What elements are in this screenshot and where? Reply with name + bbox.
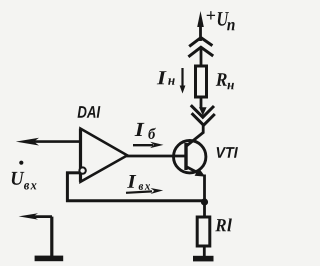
label R1 <box>215 218 232 231</box>
power +Up arrowhead <box>197 11 204 27</box>
arrow Ib direction <box>133 144 153 146</box>
wire: emitter down to junction <box>203 175 206 203</box>
label VT1 <box>217 147 238 158</box>
wire break chevron lower 2 <box>192 113 215 125</box>
wire: junction to R1 <box>203 202 206 218</box>
ground right <box>193 256 214 262</box>
wire: feedback bottom run <box>66 199 205 202</box>
label DA1 <box>78 106 101 118</box>
input arrowhead left <box>16 138 39 146</box>
wire arrowhead down <box>199 107 207 115</box>
wire: op-amp output to base <box>127 155 187 158</box>
wire: non-inverting input <box>34 140 81 143</box>
wire: break to collector <box>202 125 205 134</box>
label RH <box>216 73 234 89</box>
transistor VT1 collector lead <box>186 133 203 147</box>
resistor RH <box>196 66 207 97</box>
op-amp inverting input bubble <box>79 167 85 173</box>
transistor VT1 body <box>174 141 206 173</box>
resistor R1 <box>197 217 210 246</box>
arrow IH direction <box>181 68 183 87</box>
node +Up label <box>207 11 235 30</box>
wire break chevron upper 2 <box>188 47 213 57</box>
wire: feedback left riser <box>66 172 69 203</box>
transistor VT1 emitter lead <box>186 167 201 175</box>
label IH <box>157 71 175 85</box>
wire: +Up supply stub <box>199 22 202 41</box>
transistor VT1 emitter arrowhead <box>195 168 206 176</box>
label Uvx with dot <box>19 161 23 165</box>
ground left <box>35 256 64 262</box>
wire: lower input terminal <box>28 215 52 218</box>
wire: to left ground <box>50 217 53 256</box>
arrow Ivx direction <box>126 191 152 192</box>
wire: inverting input stub <box>66 171 80 174</box>
lower input arrowhead <box>19 213 38 219</box>
wire break chevron lower 1 <box>191 105 214 117</box>
op-amp DA1 body <box>81 129 128 182</box>
junction node <box>201 198 208 205</box>
wire break chevron upper 1 <box>189 38 212 47</box>
transistor VT1 base bar <box>184 143 187 170</box>
label Ivx <box>127 175 150 190</box>
wire: RH bottom to break <box>200 97 203 109</box>
wire: R1 to ground <box>203 246 206 256</box>
wire: chevron to RH top <box>200 47 203 68</box>
label Ib <box>135 123 156 139</box>
